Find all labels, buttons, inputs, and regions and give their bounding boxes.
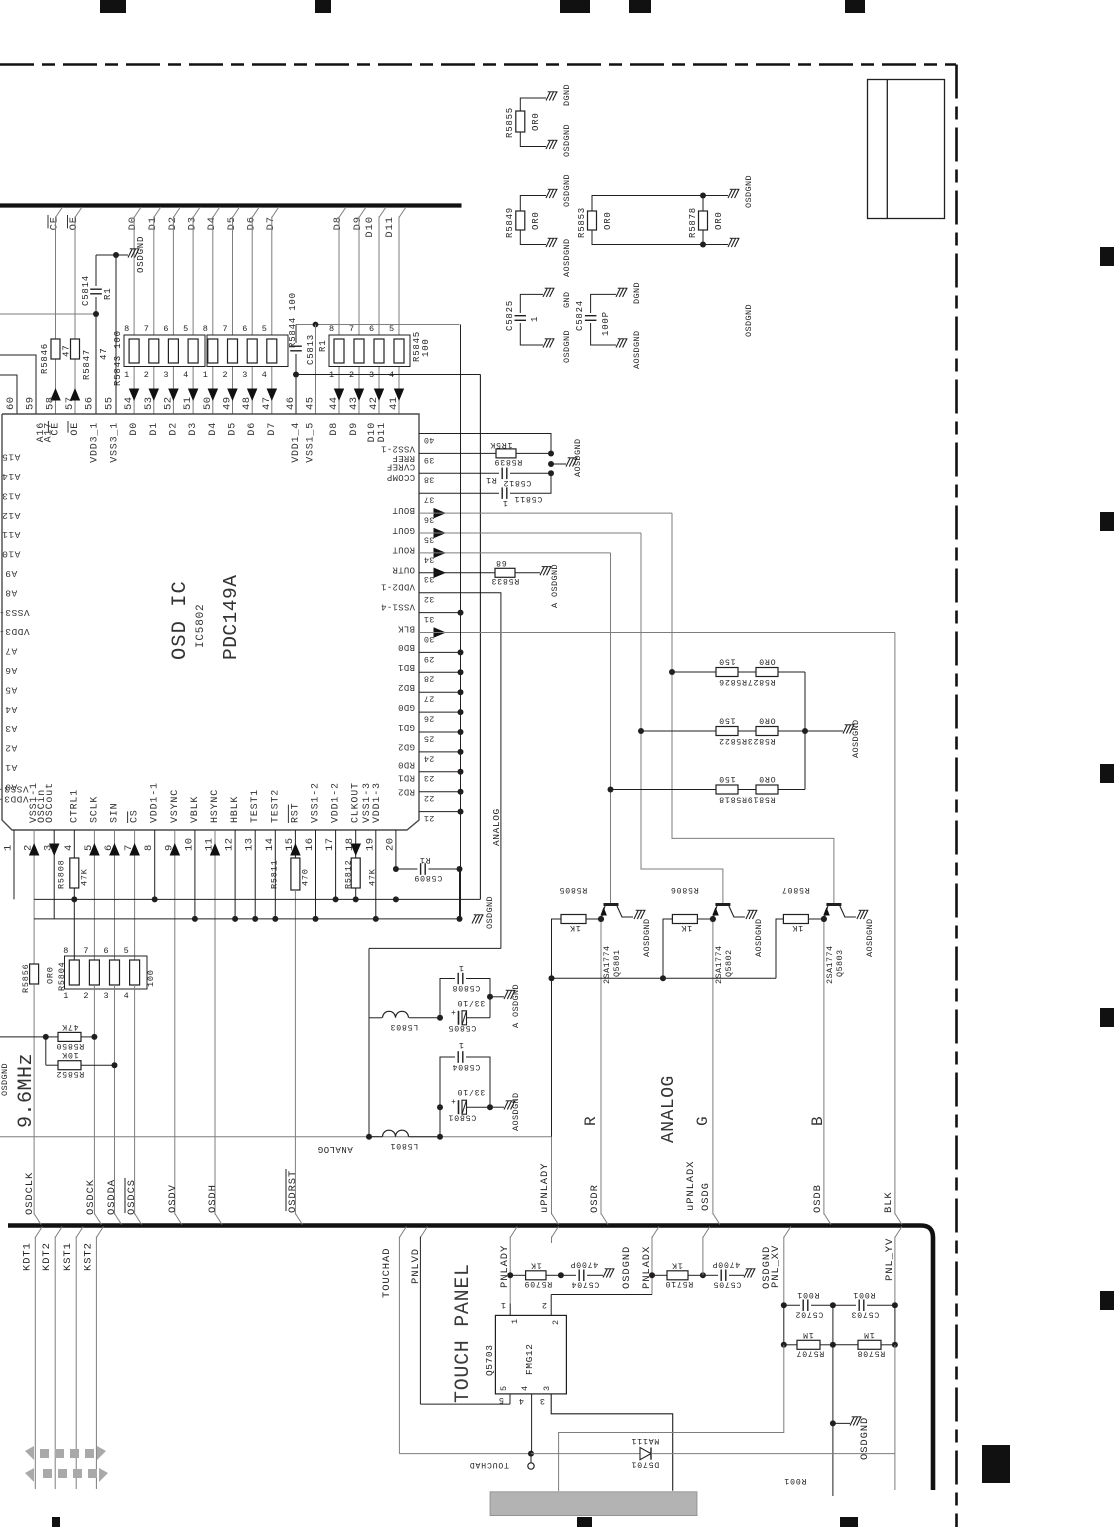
svg-text:150: 150	[718, 774, 735, 783]
svg-text:R5853: R5853	[577, 207, 587, 238]
svg-text:VDD3-3: VDD3-3	[0, 794, 29, 805]
svg-text:Q5801: Q5801	[612, 949, 622, 977]
svg-text:OE: OE	[70, 422, 81, 436]
svg-text:KDT2: KDT2	[41, 1242, 53, 1271]
svg-text:1M: 1M	[863, 1330, 874, 1339]
svg-text:VSS1-4: VSS1-4	[381, 601, 415, 611]
svg-text:OSDRST: OSDRST	[287, 1170, 299, 1213]
svg-text:CCOMP: CCOMP	[387, 472, 416, 482]
svg-text:A3: A3	[5, 723, 17, 734]
wire pin55 VSS3_1 to ground	[96, 254, 116, 256]
ground OSDGND C5704	[603, 1269, 607, 1278]
svg-text:C5825: C5825	[505, 300, 515, 331]
bottom pin wires	[13, 830, 15, 899]
svg-text:58: 58	[44, 396, 56, 410]
svg-text:PNLADY: PNLADY	[499, 1245, 511, 1288]
address/data bus (thick)	[0, 203, 462, 207]
svg-text:7: 7	[349, 324, 355, 334]
capacitor C5824 100P	[585, 315, 597, 317]
wire pin59 from left edge	[0, 355, 36, 414]
svg-text:PDC149A: PDC149A	[220, 575, 242, 660]
svg-text:3: 3	[242, 370, 248, 380]
svg-text:OUTR: OUTR	[392, 565, 415, 575]
row C5702 C5703 R001	[781, 1302, 787, 1308]
wire pin46 VDD1_4	[295, 375, 297, 415]
svg-text:56: 56	[84, 396, 96, 410]
svg-text:R1: R1	[419, 855, 430, 864]
svg-text:DGND: DGND	[632, 282, 642, 304]
svg-text:VDD2-1: VDD2-1	[381, 582, 415, 592]
svg-text:1: 1	[203, 370, 209, 380]
svg-text:OSDH: OSDH	[207, 1184, 219, 1213]
resistor R5805 1K	[598, 916, 604, 922]
svg-text:FMG12: FMG12	[524, 1343, 535, 1375]
wire D10	[378, 217, 380, 336]
svg-text:BLK: BLK	[883, 1191, 895, 1213]
svg-text:VBLK: VBLK	[190, 796, 201, 823]
svg-text:VDD3-2: VDD3-2	[0, 626, 30, 637]
svg-text:R1: R1	[318, 340, 328, 352]
inductor L5803	[369, 1017, 382, 1019]
svg-text:R5806: R5806	[670, 885, 699, 894]
capacitor C5705 4700P	[703, 1274, 718, 1276]
svg-text:13: 13	[244, 837, 256, 851]
svg-text:53: 53	[143, 396, 155, 410]
svg-text:OSDB: OSDB	[812, 1184, 824, 1213]
IC Q5703 FMG12	[495, 1315, 566, 1394]
svg-text:R5847: R5847	[82, 349, 92, 380]
svg-text:6: 6	[369, 324, 375, 334]
svg-text:29: 29	[424, 654, 435, 664]
svg-text:7: 7	[223, 324, 229, 334]
svg-text:OSDV: OSDV	[167, 1184, 179, 1213]
svg-text:44: 44	[328, 396, 340, 410]
svg-text:3: 3	[104, 991, 110, 1001]
svg-text:D0: D0	[129, 422, 140, 436]
pin34 ROUT arrow and wire	[434, 548, 447, 559]
svg-text:D3: D3	[187, 216, 199, 230]
svg-text:9.6MHz: 9.6MHz	[15, 1053, 38, 1128]
wire PNLADX	[652, 1227, 659, 1238]
capacitor C5811 1 pin37	[419, 492, 499, 494]
transistor Q5801 2SA1774	[604, 903, 619, 906]
svg-text:1: 1	[510, 1318, 520, 1324]
svg-text:D6: D6	[246, 216, 258, 230]
svg-text:1K: 1K	[530, 1261, 541, 1270]
svg-text:R5807: R5807	[781, 885, 810, 894]
svg-text:6: 6	[242, 324, 248, 334]
wire D9	[358, 217, 360, 336]
svg-text:TOUCHAD: TOUCHAD	[381, 1248, 393, 1298]
svg-text:A10: A10	[2, 549, 21, 560]
svg-text:8: 8	[329, 324, 335, 334]
bus jog	[601, 1214, 608, 1225]
svg-text:R5823R5822: R5823R5822	[718, 736, 775, 745]
pin33 OUTR with R5833 68 to AOSDGND	[434, 568, 447, 579]
svg-text:R5849: R5849	[505, 207, 515, 238]
svg-text:D0: D0	[127, 216, 139, 230]
svg-text:Q5802: Q5802	[724, 949, 734, 977]
svg-text:TEST2: TEST2	[270, 789, 281, 823]
svg-text:1M: 1M	[802, 1330, 813, 1339]
svg-text:1K: 1K	[792, 923, 803, 932]
svg-text:AOSDGND: AOSDGND	[865, 918, 875, 957]
svg-text:+: +	[451, 1009, 456, 1018]
svg-text:MA111: MA111	[631, 1436, 660, 1445]
ground AOSDGND C5811 block	[548, 461, 554, 467]
svg-text:CVREF: CVREF	[387, 462, 416, 472]
svg-text:R: R	[582, 1116, 600, 1126]
jumper R5849 OR0 OSDGND/AOSDGND	[516, 211, 525, 230]
svg-text:R5856: R5856	[21, 963, 31, 993]
svg-text:D11: D11	[384, 216, 396, 238]
svg-text:DGND: DGND	[562, 84, 572, 106]
svg-text:OSDG: OSDG	[700, 1182, 712, 1211]
svg-text:R5804: R5804	[57, 961, 67, 991]
svg-text:GD2: GD2	[398, 742, 415, 752]
svg-text:RD1: RD1	[398, 773, 415, 783]
resistor R5709 1K	[507, 1272, 513, 1278]
svg-text:BD2: BD2	[398, 682, 415, 692]
capacitor C5812 R1 pin38	[419, 472, 499, 474]
wire uPNLADY	[551, 978, 553, 1136]
inductor L5801	[369, 1136, 382, 1138]
svg-text:4700P: 4700P	[570, 1260, 599, 1269]
svg-text:D7: D7	[265, 216, 277, 230]
svg-text:OSDGND: OSDGND	[485, 896, 495, 929]
svg-text:OSDGND: OSDGND	[621, 1246, 633, 1289]
svg-text:A OSDGND: A OSDGND	[511, 984, 521, 1028]
svg-text:28: 28	[424, 674, 435, 684]
wire PNLADY	[510, 1227, 517, 1238]
resistor R5847 47 on OE line	[71, 339, 80, 359]
svg-text:R5710: R5710	[665, 1279, 694, 1288]
svg-text:4: 4	[124, 991, 130, 1001]
svg-text:ANALOG: ANALOG	[659, 1075, 679, 1143]
svg-text:R5852: R5852	[56, 1069, 85, 1078]
svg-text:L5803: L5803	[390, 1022, 419, 1031]
svg-text:C5809: C5809	[414, 873, 443, 882]
svg-text:OSDCK: OSDCK	[85, 1179, 97, 1215]
wire BOUT to Q5803	[672, 513, 834, 903]
ladder rail	[804, 672, 806, 790]
svg-text:VDD1-3: VDD1-3	[372, 782, 383, 823]
svg-text:D4: D4	[208, 422, 219, 436]
Q5703 pin1	[509, 1304, 511, 1316]
svg-text:48: 48	[241, 396, 253, 410]
svg-text:AOSDGND: AOSDGND	[642, 918, 652, 957]
svg-text:R001: R001	[784, 1476, 807, 1485]
dash-dot page border right	[955, 65, 958, 1527]
svg-text:CLKOUT: CLKOUT	[351, 782, 362, 823]
network R5804 100	[65, 956, 148, 989]
wire pin60 from left edge	[0, 375, 17, 414]
svg-text:A9: A9	[5, 568, 17, 579]
registration marks top edge	[100, 0, 126, 13]
svg-text:2: 2	[83, 991, 89, 1001]
svg-text:38: 38	[424, 475, 435, 485]
svg-text:R5827R5826: R5827R5826	[718, 677, 775, 686]
svg-text:OR0: OR0	[758, 657, 775, 666]
svg-text:36: 36	[424, 514, 435, 524]
resistor array R5844 100 (pins 50-47)	[207, 335, 288, 367]
svg-text:17: 17	[324, 837, 336, 851]
svg-text:1K: 1K	[681, 923, 692, 932]
VDD rail down right of IC	[479, 375, 481, 900]
panel network verticals	[783, 1305, 785, 1345]
svg-text:14: 14	[264, 837, 276, 851]
svg-text:D7: D7	[267, 422, 278, 436]
ground AOSDGND C5805	[490, 996, 504, 998]
svg-text:R5843 100: R5843 100	[113, 330, 123, 386]
svg-text:R5855: R5855	[505, 107, 515, 138]
svg-text:D9: D9	[352, 216, 364, 230]
wire OSDG below bus to R5710	[703, 1227, 710, 1238]
svg-text:G: G	[694, 1116, 712, 1126]
wire KDT2	[55, 1227, 62, 1238]
svg-text:47K: 47K	[79, 868, 89, 886]
capacitor C5704 4700P	[561, 1274, 576, 1276]
svg-text:C5811: C5811	[514, 494, 543, 503]
resistor R5850 47K	[58, 1032, 81, 1041]
svg-text:R5839: R5839	[494, 457, 523, 466]
svg-text:A15: A15	[2, 452, 21, 463]
svg-text:50: 50	[202, 396, 214, 410]
base feed rail	[552, 977, 777, 979]
svg-text:VSS3-2: VSS3-2	[0, 607, 30, 618]
pin26 wire	[419, 711, 461, 713]
pin27 wire	[419, 691, 461, 693]
svg-text:D10: D10	[364, 216, 376, 238]
long analog line	[0, 1136, 552, 1138]
svg-text:4: 4	[63, 844, 75, 851]
wire D11	[398, 217, 400, 336]
svg-text:C5702: C5702	[795, 1310, 824, 1319]
svg-text:40: 40	[424, 435, 435, 445]
svg-text:PNLVD: PNLVD	[410, 1248, 422, 1284]
svg-text:23: 23	[424, 773, 435, 783]
svg-text:R5812: R5812	[344, 859, 354, 889]
svg-text:1: 1	[502, 498, 508, 507]
flexible cable bus (thick)	[8, 1226, 933, 1491]
svg-text:A2: A2	[5, 743, 17, 754]
bus jog	[175, 1214, 182, 1225]
wire D7	[271, 217, 273, 336]
wire OSDB	[823, 919, 825, 1215]
svg-text:47K: 47K	[368, 868, 378, 886]
svg-text:R5707: R5707	[796, 1349, 825, 1358]
bus jog	[713, 1214, 720, 1225]
wire KDT1	[35, 1227, 42, 1238]
wire C5809 to rail	[459, 869, 461, 919]
fold arrows bottom left	[40, 1449, 49, 1458]
bus jog	[135, 1214, 142, 1225]
svg-text:uPNLADY: uPNLADY	[539, 1163, 551, 1213]
svg-text:43: 43	[348, 396, 360, 410]
resistor array R5843 100 (pins 54-51)	[124, 335, 205, 367]
registration mark bottom right square	[982, 1445, 1010, 1483]
svg-text:D5: D5	[228, 422, 239, 436]
wire KST2	[96, 1227, 103, 1238]
svg-text:HBLK: HBLK	[230, 796, 241, 823]
svg-text:R5846: R5846	[40, 343, 50, 374]
ground OSDGND C5705	[744, 1269, 748, 1278]
svg-text:OSD IC: OSD IC	[169, 580, 192, 660]
resistor R5807 1K	[821, 916, 827, 922]
ground AOSDGND ladder	[805, 730, 843, 732]
svg-text:C5705: C5705	[713, 1280, 742, 1289]
svg-text:AOSDGND: AOSDGND	[562, 238, 572, 277]
svg-text:D6: D6	[247, 422, 258, 436]
rail from C5813 bottom	[296, 374, 480, 376]
resistor R5852 10K	[45, 1037, 47, 1065]
svg-text:45: 45	[305, 396, 317, 410]
svg-text:5: 5	[389, 324, 395, 334]
svg-text:AOSDGND: AOSDGND	[754, 918, 764, 957]
svg-text:4: 4	[520, 1385, 530, 1391]
svg-text:OSDGND: OSDGND	[0, 1063, 10, 1096]
dash-dot page border top	[0, 63, 956, 66]
svg-text:OSDGND: OSDGND	[562, 330, 572, 363]
svg-text:1K: 1K	[569, 923, 580, 932]
svg-text:1: 1	[530, 316, 540, 322]
Q5703 pin2	[550, 1295, 552, 1316]
svg-text:22: 22	[424, 793, 435, 803]
svg-text:3: 3	[542, 1385, 552, 1391]
svg-text:33/10: 33/10	[457, 998, 486, 1008]
svg-text:ROUT: ROUT	[392, 545, 415, 555]
svg-text:A8: A8	[5, 587, 17, 598]
svg-text:R5805: R5805	[559, 885, 588, 894]
svg-text:8: 8	[143, 844, 155, 851]
svg-text:2: 2	[551, 1319, 561, 1325]
svg-text:TOUCH PANEL: TOUCH PANEL	[452, 1263, 475, 1403]
wires OSDCK OSDDA OSDCS	[93, 985, 95, 1215]
svg-text:7: 7	[144, 324, 150, 334]
bus jog	[552, 1214, 559, 1225]
svg-text:8: 8	[124, 324, 130, 334]
svg-text:AOSDGND: AOSDGND	[851, 719, 861, 758]
bus jog	[94, 1214, 101, 1225]
svg-text:49: 49	[222, 396, 234, 410]
wire TOUCHAD horizontal, test point	[399, 1453, 531, 1455]
uPNLADY below-bus stub	[552, 1227, 559, 1238]
bus jog	[824, 1214, 831, 1225]
stub from left edge	[0, 1036, 46, 1038]
bus jog	[295, 1214, 302, 1225]
resistor R5839 1R5K pin39	[419, 452, 496, 454]
svg-text:33: 33	[424, 574, 435, 584]
svg-text:A12: A12	[2, 510, 21, 521]
wire D5	[232, 217, 234, 336]
pin29 wire	[419, 651, 461, 653]
svg-text:39: 39	[424, 455, 435, 465]
resistor R5856 OR0 OSDCLK	[30, 964, 39, 984]
svg-text:AOSDGND: AOSDGND	[632, 330, 642, 369]
capacitor C5825 1	[515, 315, 527, 317]
svg-text:5: 5	[498, 1395, 504, 1405]
svg-text:D1: D1	[147, 216, 159, 230]
svg-text:1: 1	[124, 370, 130, 380]
svg-text:GND: GND	[562, 291, 572, 308]
svg-text:OSDR: OSDR	[589, 1184, 601, 1213]
svg-text:GD0: GD0	[398, 702, 415, 712]
wire PNL_YV	[895, 1227, 902, 1238]
svg-text:150: 150	[718, 716, 735, 725]
svg-text:BD1: BD1	[398, 662, 415, 672]
svg-text:VDD3_1: VDD3_1	[90, 422, 101, 463]
svg-text:21: 21	[424, 813, 435, 823]
registration marks bottom edge	[52, 1517, 60, 1527]
svg-text:C5804: C5804	[452, 1062, 481, 1071]
svg-text:7: 7	[83, 946, 89, 956]
svg-text:BLK: BLK	[398, 623, 415, 633]
svg-text:2: 2	[144, 370, 150, 380]
svg-text:OR0: OR0	[531, 112, 541, 131]
svg-text:10: 10	[183, 837, 195, 851]
Q5703 pin4	[531, 1394, 533, 1454]
resistors R5827 R5826 150 OR0	[669, 669, 675, 675]
svg-text:5: 5	[499, 1385, 509, 1391]
arrows bottom pins	[29, 843, 40, 856]
svg-text:VDD1-2: VDD1-2	[331, 782, 342, 823]
svg-text:1R5K: 1R5K	[490, 440, 513, 449]
svg-text:47: 47	[261, 396, 273, 410]
svg-text:VDD1-1: VDD1-1	[150, 782, 161, 823]
svg-text:1: 1	[458, 963, 464, 972]
jumper R5853 OR0 with rails	[588, 211, 597, 230]
pin31 wire	[419, 612, 461, 614]
svg-text:CS: CS	[130, 809, 141, 823]
resistor array R5845 100 (pins 44-41)	[329, 335, 410, 367]
svg-text:B: B	[809, 1116, 827, 1126]
svg-text:TEST1: TEST1	[250, 789, 261, 823]
svg-text:D8: D8	[329, 422, 340, 436]
capacitor C5813 R1 on pin46 line	[295, 325, 297, 344]
svg-text:60: 60	[5, 396, 17, 410]
svg-text:52: 52	[162, 396, 174, 410]
Q5703 pin3	[551, 1394, 673, 1491]
resistor R5811 470 pin15	[291, 858, 300, 890]
svg-text:D4: D4	[206, 216, 218, 230]
svg-text:PNLADX: PNLADX	[641, 1246, 653, 1289]
svg-text:R1: R1	[485, 475, 496, 484]
svg-text:25: 25	[424, 733, 435, 743]
svg-text:uPNLADX: uPNLADX	[685, 1161, 697, 1211]
svg-text:OR0: OR0	[46, 966, 56, 984]
svg-text:VDD1_4: VDD1_4	[291, 422, 302, 463]
arrow into pin 58	[50, 388, 61, 401]
wire D0	[133, 217, 135, 336]
pin30 BLK arrow and wire	[434, 627, 447, 638]
svg-text:46: 46	[285, 396, 297, 410]
svg-text:OSDGND: OSDGND	[136, 236, 146, 273]
svg-text:VSYNC: VSYNC	[170, 789, 181, 823]
svg-text:R5808: R5808	[56, 859, 66, 889]
svg-text:VSS2-1: VSS2-1	[381, 443, 415, 453]
svg-text:OSDGND: OSDGND	[744, 175, 754, 208]
pin23 wire	[419, 771, 461, 773]
svg-text:OR0: OR0	[603, 211, 613, 230]
svg-text:3: 3	[539, 1396, 545, 1406]
svg-text:5: 5	[124, 946, 130, 956]
pin24 wire	[419, 751, 461, 753]
wire OSDR	[600, 919, 602, 1215]
svg-text:32: 32	[424, 594, 435, 604]
svg-text:31: 31	[424, 614, 435, 624]
svg-text:8: 8	[203, 324, 209, 334]
svg-text:2SA1774: 2SA1774	[825, 945, 835, 984]
